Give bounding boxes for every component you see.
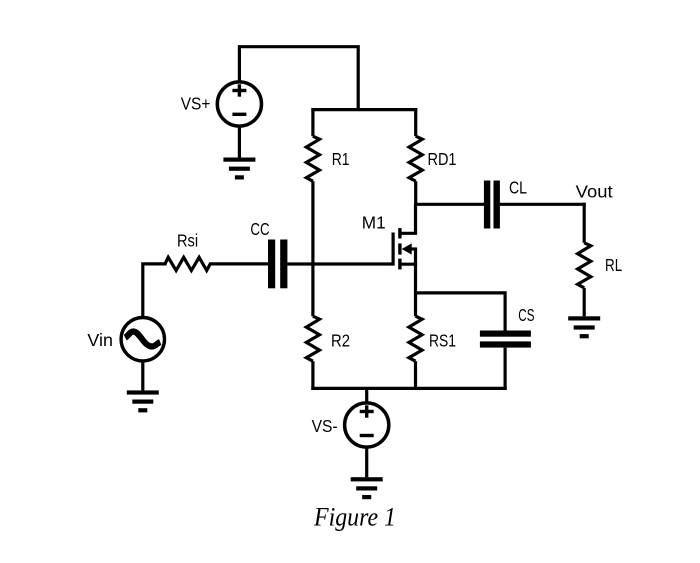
svg-text:RL: RL (605, 255, 622, 275)
svg-text:VS+: VS+ (181, 94, 211, 114)
svg-text:Figure 1: Figure 1 (313, 503, 396, 532)
wire VS- to ground (365, 447, 368, 477)
wire Rsi to CC (209, 262, 268, 265)
M1 body arrow (402, 243, 412, 254)
svg-text:CL: CL (509, 177, 527, 197)
wire source node to CS (414, 293, 505, 331)
svg-text:R1: R1 (332, 149, 350, 169)
capacitor CC (268, 240, 287, 289)
wire drain node to CL (414, 203, 484, 206)
wire bottom rail (311, 387, 506, 390)
wire RS1 bottom to bottom rail (414, 361, 417, 390)
resistor R2 (306, 316, 319, 361)
wire Vin corner to Rsi (143, 264, 167, 317)
M1 channel bar top (drain) (398, 228, 401, 238)
resistor RS1 (409, 316, 422, 361)
wire CL to Vout corner (500, 203, 586, 206)
source Vin (121, 318, 164, 361)
source VS- (345, 403, 389, 447)
wire CS bottom to bottom rail (504, 348, 507, 390)
M1 drain contact (400, 232, 417, 235)
svg-text:Rsi: Rsi (177, 231, 198, 251)
svg-text:R2: R2 (331, 330, 350, 350)
wire gate (287, 262, 393, 265)
ground below VS+ (223, 158, 255, 180)
wire R2 bottom to bottom rail (311, 361, 314, 390)
svg-text:CS: CS (518, 305, 534, 325)
svg-text:CC: CC (250, 219, 269, 239)
wire top rail R1 to RD1 (311, 108, 417, 111)
wire R1 bottom through gate node to R2 top (311, 181, 314, 316)
Vin sine symbol (125, 332, 160, 347)
wire VS+ to ground (238, 126, 241, 157)
ground below VS- (351, 477, 383, 499)
wire Vout corner down to RL (583, 203, 586, 243)
svg-text:M1: M1 (362, 213, 386, 233)
M1 channel bar middle (body) (398, 243, 401, 254)
wire VS+ top to supply rail (239, 47, 358, 110)
capacitor CL (484, 181, 500, 229)
M1 source contact (400, 263, 417, 266)
ground below Vin (127, 390, 159, 412)
svg-text:RD1: RD1 (428, 149, 457, 169)
svg-text:VS-: VS- (312, 416, 338, 436)
resistor RD1 (409, 136, 422, 181)
svg-text:Vin: Vin (87, 330, 113, 350)
wire drain vertical to M1 drain contact (414, 204, 417, 233)
transistor M1 (393, 228, 417, 269)
wire rail to VS- (365, 388, 368, 403)
wire RD1 bottom to drain node (414, 181, 417, 206)
capacitor CS (480, 331, 531, 348)
wire RL to ground (583, 288, 586, 317)
wire rail to R1 (311, 110, 314, 137)
M1 channel bar bottom (source) (398, 259, 401, 270)
M1 body line (408, 247, 417, 250)
resistor RL (578, 243, 591, 288)
source VS+ (217, 82, 261, 126)
wire rail to RD1 (414, 110, 417, 137)
svg-text:RS1: RS1 (429, 330, 456, 350)
wire Vin to ground (141, 361, 144, 391)
svg-text:Vout: Vout (576, 182, 613, 202)
ground below RL (568, 316, 600, 338)
resistor Rsi (165, 257, 210, 270)
wire M1 source down to RS1 (414, 249, 417, 316)
resistor R1 (306, 136, 319, 181)
M1 gate bar (392, 233, 395, 266)
